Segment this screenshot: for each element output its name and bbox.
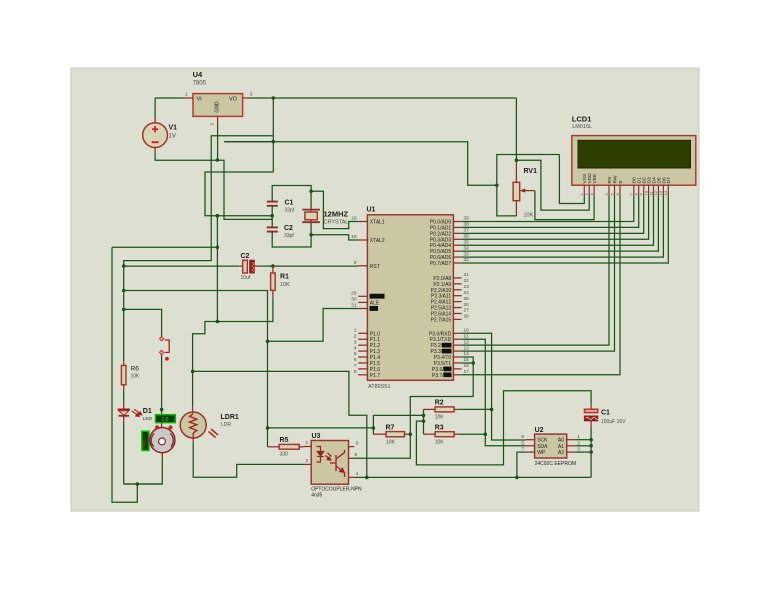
- label C2 33pf: [284, 225, 294, 239]
- U1 pin 36 P0.3/AD3: [430, 233, 469, 243]
- svg-text:10K: 10K: [280, 282, 290, 288]
- label R7 10K: [386, 425, 396, 446]
- svg-text:C1: C1: [601, 410, 610, 417]
- crystal X1 12MHZ: [302, 210, 320, 223]
- wire A1 to C1 column: [576, 445, 592, 447]
- svg-text:LM016L: LM016L: [572, 124, 592, 130]
- svg-text:27: 27: [464, 308, 470, 314]
- svg-text:1: 1: [354, 328, 357, 334]
- U2 pin 5 SDA: [521, 440, 548, 450]
- label U1: [367, 207, 376, 214]
- U1 pin 2 P1.1: [354, 333, 380, 343]
- junction R3 right: [484, 432, 488, 436]
- U1 pin 26 P2.5/A13: [431, 302, 470, 312]
- wire P0.5 to LCD D5: [462, 196, 659, 251]
- U1 pin 1 P1.0: [354, 328, 380, 338]
- svg-text:P3.7/: P3.7/: [432, 373, 444, 379]
- label 12MHZ CRYSTAL: [324, 210, 349, 226]
- motor value display left: [142, 431, 150, 450]
- wire LDR bottom to opto pin 2: [193, 438, 303, 478]
- wire R6 to D1: [123, 391, 125, 403]
- junction A0: [589, 438, 593, 442]
- capacitor C2 10uf electrolytic: [239, 260, 258, 273]
- wire RST line left segment: [124, 265, 240, 267]
- wire VSS to ground loop: [559, 155, 584, 204]
- wire VEE to RV1 wiper: [535, 191, 594, 220]
- U1 pin 13 P3.3: [431, 345, 470, 355]
- wire P0.4 to LCD D4: [462, 196, 654, 245]
- svg-text:13: 13: [464, 345, 470, 351]
- label U2: [535, 427, 544, 434]
- svg-text:SCK: SCK: [537, 438, 548, 444]
- label R2 10K: [435, 400, 445, 421]
- junction VCC tap: [272, 96, 276, 100]
- svg-text:1.0: 1.0: [162, 417, 169, 423]
- svg-text:1: 1: [185, 92, 188, 98]
- wire VCC drop to RV1 top: [515, 98, 517, 160]
- wire bottom rail: [124, 483, 163, 485]
- label C2 10uf: [241, 253, 251, 281]
- svg-text:A0: A0: [558, 438, 564, 444]
- junction above motor: [160, 408, 164, 412]
- svg-text:4: 4: [356, 471, 359, 477]
- U1 pin 4 P1.3: [354, 345, 380, 355]
- EEPROM U2 body: [535, 434, 567, 458]
- label LCD1 LM016L: [572, 115, 592, 131]
- svg-text:LDR: LDR: [221, 422, 231, 428]
- svg-text:R3: R3: [435, 425, 444, 432]
- junction R5 R7 branch: [266, 426, 270, 430]
- label U4 7805: [193, 70, 207, 87]
- wire P0.1 to LCD D1: [462, 196, 639, 228]
- U1 pin 21 P2.0/A8: [433, 272, 469, 282]
- junction crystal top: [309, 189, 313, 193]
- LCD pin 13 D6: [658, 177, 667, 196]
- junction RV1 left loop: [495, 184, 499, 188]
- wire LDR top lead: [192, 371, 194, 412]
- svg-text:5: 5: [354, 351, 357, 357]
- wire VCC drop x273: [272, 98, 274, 172]
- U1 pin 5 P1.4: [354, 351, 380, 361]
- potentiometer RV1 10K: [513, 160, 535, 216]
- wire P3.7 to LCD E: [462, 196, 620, 375]
- label C1 33pf: [285, 200, 295, 214]
- svg-text:21: 21: [464, 272, 470, 278]
- LCD pin 14 D7: [663, 177, 672, 196]
- junction R2 R3 net dot2: [422, 419, 426, 423]
- svg-text:10uf: 10uf: [241, 275, 251, 281]
- svg-text:330: 330: [280, 452, 289, 458]
- svg-text:RW1: RW1: [142, 439, 147, 449]
- svg-text:25: 25: [464, 296, 470, 302]
- wire P0.3 to LCD D3: [462, 196, 649, 239]
- wire crystal to XTAL1: [311, 191, 358, 228]
- wire VO supply rail to RV1: [249, 97, 516, 99]
- svg-text:U2: U2: [535, 427, 544, 434]
- svg-text:XTAL1: XTAL1: [370, 220, 385, 226]
- battery V1: [143, 117, 168, 152]
- svg-text:10K: 10K: [131, 374, 141, 380]
- U3 pin 4: [349, 471, 359, 477]
- wire VCC horizontal to RV1 loop: [225, 142, 497, 186]
- LCD1 LM016L body: [572, 136, 696, 186]
- wire RST line right segment: [259, 265, 359, 267]
- svg-text:32: 32: [464, 257, 470, 263]
- U1 pin 9 RST: [354, 260, 380, 270]
- wire R2 R3 left junction vertical: [423, 409, 425, 434]
- svg-text:39: 39: [464, 216, 470, 222]
- resistor R1 10K: [271, 266, 276, 298]
- U2 pin 7 WP: [521, 447, 546, 457]
- U1 pin 18 XTAL2: [351, 234, 385, 244]
- U1 pin 8 P1.7: [354, 369, 380, 379]
- svg-text:7805: 7805: [193, 81, 207, 87]
- label R6 10K: [131, 366, 141, 380]
- svg-text:31: 31: [351, 303, 357, 309]
- LDR1: [180, 412, 218, 438]
- optocoupler U3 body: [311, 441, 348, 485]
- wire P0.0 to LCD D0: [462, 196, 634, 222]
- U1 pin 17 P3.7: [432, 369, 469, 379]
- U3 internal transistor: [330, 450, 345, 477]
- junction rail at WP: [515, 476, 519, 480]
- LCD pin 4 RS: [604, 176, 613, 196]
- wire R2 to SCL column: [459, 408, 492, 410]
- U1 pin 16 P3.6: [432, 363, 469, 373]
- wire crystal loop bottom: [272, 222, 311, 247]
- motor value display top: [156, 415, 176, 423]
- U2 pin 2 A1: [558, 440, 580, 450]
- U1 pin 33 P0.6/AD6: [430, 251, 469, 261]
- wire VDD to RV1 top: [516, 160, 589, 210]
- wire U4 GND down to ground junction: [217, 126, 219, 160]
- regulator U4 box: [193, 94, 243, 117]
- svg-text:U3: U3: [312, 433, 321, 440]
- resistor R2 10K: [424, 407, 459, 412]
- junction C1 C2 midpoint: [270, 214, 274, 218]
- svg-text:4n35: 4n35: [311, 493, 322, 499]
- U3 pin 6: [349, 441, 359, 447]
- svg-text:28: 28: [464, 314, 470, 320]
- svg-text:12: 12: [464, 339, 470, 345]
- svg-text:24C02C EEPROM: 24C02C EEPROM: [535, 461, 576, 467]
- U3 pin 2: [304, 458, 312, 465]
- junction R2 right: [490, 408, 494, 412]
- U1 pin 32 P0.7/AD7: [430, 257, 469, 267]
- LCD pin 7 D0: [629, 177, 638, 196]
- svg-text:U1: U1: [367, 207, 376, 214]
- wire VCC branch to R6 column: [124, 136, 274, 266]
- svg-text:P2.7/A15: P2.7/A15: [431, 317, 452, 323]
- svg-text:23: 23: [464, 284, 470, 290]
- wire P3.5 stub join: [462, 362, 474, 364]
- U1 pin 30 ALE: [351, 297, 380, 307]
- wire A2 to C1 column: [576, 451, 592, 453]
- U4 pin 2 GND: [210, 116, 218, 126]
- U1 pin 39 P0.0/AD0: [430, 216, 469, 226]
- svg-text:LED: LED: [143, 416, 153, 421]
- wire motor bottom to rail: [124, 458, 163, 484]
- LCD pin 1 VSS: [579, 173, 588, 196]
- svg-text:38: 38: [464, 222, 470, 228]
- junction R7 left: [372, 426, 376, 430]
- svg-text:WP: WP: [537, 450, 546, 456]
- svg-text:34: 34: [464, 245, 470, 251]
- junction EA on x267 column: [266, 340, 270, 344]
- junction rail at net A: [365, 476, 369, 480]
- svg-text:2: 2: [354, 333, 357, 339]
- svg-text:33pf: 33pf: [284, 233, 294, 239]
- svg-text:U4: U4: [193, 70, 203, 79]
- label R5 330: [280, 437, 289, 458]
- svg-text:12MHZ: 12MHZ: [324, 210, 349, 219]
- U1 pin 11 P3.1: [430, 333, 469, 343]
- junction ground on cap midpoint wire: [216, 214, 220, 218]
- svg-text:5: 5: [355, 452, 358, 458]
- junction A1: [589, 444, 593, 448]
- junction VCC branch: [272, 140, 276, 144]
- U2 pin 3 A2: [558, 447, 580, 457]
- svg-text:4: 4: [354, 345, 357, 351]
- wire crystal loop top: [272, 186, 311, 210]
- label D1 LED: [143, 408, 153, 421]
- svg-text:24: 24: [464, 290, 470, 296]
- svg-text:18: 18: [351, 234, 357, 240]
- wire A0 to C1 column: [576, 439, 592, 441]
- wire R5 junction to R7 left: [268, 427, 374, 429]
- junction bottom rail to left rail: [136, 482, 140, 486]
- wire to switch top: [124, 309, 162, 336]
- svg-text:14: 14: [663, 190, 668, 195]
- svg-text:A2: A2: [558, 450, 564, 456]
- U1 pin 37 P0.2/AD2: [430, 228, 469, 238]
- resistor R5 330: [268, 444, 304, 449]
- svg-text:CRYSTAL: CRYSTAL: [324, 220, 349, 226]
- svg-text:LCD1: LCD1: [572, 115, 592, 124]
- svg-text:9: 9: [354, 260, 357, 266]
- svg-text:17: 17: [464, 369, 470, 375]
- junction R1 top: [271, 264, 275, 268]
- svg-text:R2: R2: [435, 400, 444, 407]
- junction ground at battery: [216, 158, 220, 162]
- junction R6 column top on RST line: [122, 264, 126, 268]
- svg-text:1V: 1V: [169, 134, 176, 140]
- U3 pin 1: [304, 440, 312, 447]
- svg-text:26: 26: [464, 302, 470, 308]
- LCD pin 3 VEE: [589, 173, 598, 196]
- svg-text:AT89S51: AT89S51: [368, 384, 391, 390]
- svg-text:7: 7: [354, 363, 357, 369]
- svg-text:A1: A1: [558, 444, 564, 450]
- U1 pin 23 P2.2/A10: [431, 284, 470, 294]
- label C1 100uF 16V: [601, 410, 626, 426]
- wire left vertical rail x112: [112, 247, 137, 502]
- motor M1: [150, 423, 175, 458]
- svg-text:SDA: SDA: [537, 444, 548, 450]
- svg-text:V1: V1: [169, 125, 178, 132]
- U1 pin 35 P0.4/AD4: [430, 239, 469, 249]
- LCD pin 2 VDD: [584, 173, 593, 196]
- wire P3.1 to SDA: [462, 339, 526, 446]
- U1 pin 3 P1.2: [354, 339, 380, 349]
- label AT89S51: [368, 384, 391, 390]
- wire ground staircase to LDR top: [193, 322, 218, 372]
- svg-text:15: 15: [464, 357, 470, 363]
- wire P0.6 to LCD D6: [462, 196, 664, 257]
- LCD pin 6 E: [615, 180, 624, 196]
- svg-text:6: 6: [356, 441, 359, 447]
- wire R6 column upper: [123, 266, 125, 361]
- svg-text:R1: R1: [280, 274, 289, 281]
- svg-text:RV1: RV1: [524, 168, 538, 175]
- U1 pin 19 XTAL1: [351, 216, 385, 226]
- svg-text:6: 6: [354, 357, 357, 363]
- U1 pin 15 P3.5: [434, 357, 469, 367]
- junction LDR top: [191, 370, 195, 374]
- junction R7 right: [409, 432, 413, 436]
- junction ground column bottom: [216, 320, 220, 324]
- junction switch branch: [122, 308, 126, 312]
- wire ground to left vertical rail: [112, 246, 217, 248]
- wire switch to motor: [161, 355, 163, 415]
- U1 pin 24 P2.3/A11: [431, 290, 469, 300]
- LCD1 screen: [578, 140, 691, 168]
- U4 pin 1 VI: [182, 92, 193, 99]
- svg-text:35: 35: [464, 239, 470, 245]
- svg-text:1: 1: [306, 440, 309, 446]
- U1 pin 7 P1.6: [354, 363, 380, 373]
- wire RV1 outer loop: [497, 155, 560, 216]
- svg-text:R5: R5: [280, 437, 289, 444]
- svg-text:VEE: VEE: [592, 173, 598, 184]
- microcontroller U1 AT89S51 body: [367, 215, 453, 380]
- svg-text:29: 29: [351, 291, 357, 297]
- U1 pin 10 P3.0: [429, 328, 469, 338]
- wire C1 bottom to A0 A1 A2 and ground rail: [590, 428, 592, 478]
- svg-text:10: 10: [464, 328, 470, 334]
- LCD pin 10 D3: [643, 177, 652, 196]
- label RV1 10K: [524, 168, 538, 219]
- svg-text:8: 8: [354, 369, 357, 375]
- U2 pin 6 SCK: [521, 434, 548, 444]
- junction R2 R3 net dot1: [422, 414, 426, 418]
- junction A2: [589, 450, 593, 454]
- LCD pin 9 D2: [639, 177, 648, 196]
- svg-text:10K: 10K: [524, 213, 534, 219]
- svg-text:10K: 10K: [386, 440, 396, 446]
- junction ground to left rail: [216, 246, 220, 250]
- svg-text:GND: GND: [215, 101, 221, 113]
- wire V1 bottom to ground junction: [155, 153, 272, 220]
- svg-text:P0.7/AD7: P0.7/AD7: [430, 261, 452, 267]
- junction RV1 top: [515, 158, 519, 162]
- wire VCC branch 3 to cap midpoint: [205, 172, 273, 216]
- svg-text:XTAL2: XTAL2: [370, 238, 385, 244]
- svg-text:P1.7: P1.7: [370, 373, 381, 379]
- wire P3.0 to SCK: [462, 333, 526, 440]
- svg-text:11: 11: [464, 333, 469, 339]
- svg-text:3: 3: [354, 339, 357, 345]
- resistor R3 10K: [424, 432, 460, 437]
- svg-text:C1: C1: [285, 200, 294, 207]
- wire P0.7 to LCD D7: [462, 196, 669, 263]
- wire dot2 branch to C1 top: [416, 391, 591, 465]
- U4 pin 3 VO: [243, 92, 253, 99]
- U1 pin 29 PSEN: [351, 291, 384, 299]
- U1 pin 22 P2.1/A9: [433, 278, 469, 288]
- svg-text:33pf: 33pf: [285, 208, 295, 214]
- svg-text:37: 37: [464, 228, 470, 234]
- wire P0.2 to LCD D2: [462, 196, 644, 234]
- svg-text:100uF 16V: 100uF 16V: [601, 419, 626, 425]
- svg-text:VI: VI: [197, 97, 203, 103]
- wire P3.2 to LCD RS: [462, 196, 609, 345]
- resistor R7 10K: [373, 428, 410, 437]
- LCD pin 8 D1: [634, 177, 643, 196]
- svg-text:33: 33: [464, 251, 470, 257]
- junction P3.5 on P3.4 wire: [471, 361, 475, 365]
- wire WP to ground rail: [517, 452, 526, 477]
- svg-text:6: 6: [521, 434, 524, 440]
- label LDR1 LDR: [221, 414, 239, 428]
- capacitor C1 100uF 16V: [584, 404, 598, 428]
- wire ground to R1 bottom: [217, 298, 273, 322]
- svg-text:19: 19: [351, 216, 357, 222]
- svg-text:C2: C2: [284, 225, 293, 232]
- U1 pin 27 P2.6/A14: [431, 308, 470, 318]
- wire V1 top to U4 VI pin 1: [155, 98, 182, 117]
- svg-text:2: 2: [210, 123, 216, 126]
- wire R3 to SDA column: [460, 433, 486, 435]
- svg-text:D7: D7: [666, 177, 672, 184]
- label 24C02C EEPROM: [535, 461, 576, 467]
- label OPTOCOUPLER-NPN 4n35: [311, 487, 362, 499]
- capacitor C1 33pf: [267, 202, 278, 216]
- wire ground column: [216, 216, 218, 322]
- U2 pin 1 A0: [558, 434, 580, 444]
- svg-text:ALE: ALE: [370, 300, 380, 306]
- svg-text:C2: C2: [241, 253, 250, 260]
- LCD pin 5 RW: [609, 175, 618, 196]
- U1 pin 14 P3.4: [434, 351, 469, 361]
- label R1 10K: [280, 274, 290, 289]
- svg-text:RS: RS: [607, 176, 613, 184]
- U1 pin 6 P1.5: [354, 357, 380, 367]
- LED D1: [118, 403, 142, 422]
- svg-text:36: 36: [464, 233, 470, 239]
- U1 pin 12 P3.2: [431, 339, 470, 349]
- svg-text:10K: 10K: [435, 415, 445, 421]
- wire EA to VCC column: [268, 309, 359, 342]
- svg-text:10K: 10K: [435, 440, 445, 446]
- label U3: [312, 433, 321, 440]
- U1 pin 38 P0.1/AD1: [430, 222, 469, 232]
- svg-text:22: 22: [464, 278, 470, 284]
- wire VCC branch 2: [224, 141, 273, 143]
- U1 pin 25 P2.4/A12: [431, 296, 470, 306]
- LCD pin 12 D5: [653, 177, 662, 196]
- wire emitter rail: [354, 476, 591, 478]
- svg-text:D1: D1: [143, 408, 152, 415]
- wire R7 junction up to R2 junction: [373, 415, 423, 428]
- wire branch to R5 column x267: [124, 291, 268, 447]
- svg-text:LDR1: LDR1: [221, 414, 239, 421]
- svg-text:R7: R7: [386, 425, 395, 432]
- svg-text:3: 3: [250, 92, 253, 98]
- resistor R6 10K: [121, 361, 126, 390]
- junction branch to R5 column: [122, 289, 126, 293]
- svg-text:30: 30: [351, 297, 357, 303]
